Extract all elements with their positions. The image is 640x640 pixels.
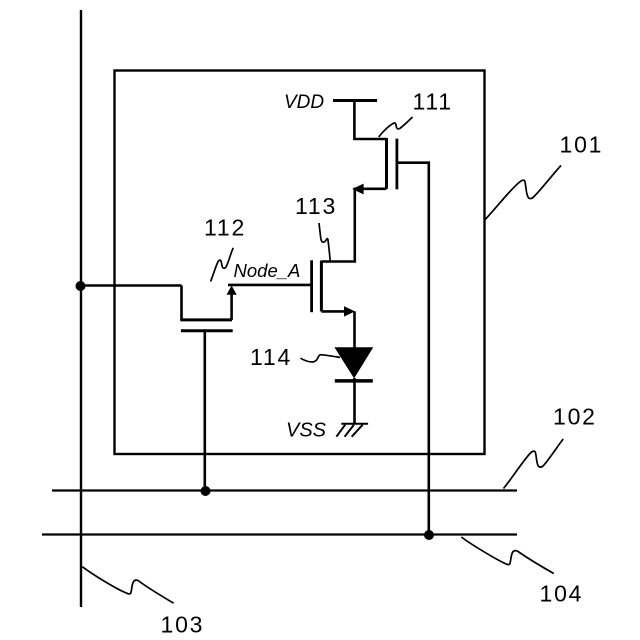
wire 112 source stem bbox=[230, 292, 233, 320]
leader line for 112 bbox=[211, 248, 234, 282]
source arrow of transistor 111 bbox=[352, 184, 363, 195]
leader line for 101 bbox=[485, 166, 561, 221]
svg-text:Node_A: Node_A bbox=[234, 260, 301, 281]
wire 112 gate to row 102 bbox=[204, 331, 207, 491]
row line 102 bbox=[52, 489, 517, 491]
transistor 113 bbox=[312, 260, 347, 312]
leader line for 103 bbox=[82, 567, 173, 604]
junction dot on row 102 bbox=[201, 486, 211, 496]
wire source of 111 down to transistor 113 bbox=[321, 189, 386, 262]
pixel circuit box 101 bbox=[115, 71, 485, 455]
ground symbol VSS bbox=[336, 424, 368, 437]
svg-text:101: 101 bbox=[560, 131, 604, 157]
leader line for 113 bbox=[319, 223, 330, 261]
leader line for 114 bbox=[301, 355, 341, 362]
wire VDD to transistor 111 drain bbox=[354, 101, 386, 140]
leader line for 104 bbox=[461, 537, 554, 574]
wire gate of 111 to column 104 bbox=[397, 163, 429, 535]
leader line for 111 bbox=[379, 117, 413, 137]
svg-text:VSS: VSS bbox=[286, 419, 327, 441]
wire column 103 to 112 drain bbox=[81, 284, 182, 287]
node A up arrow on 112 source stem bbox=[227, 286, 237, 295]
svg-text:113: 113 bbox=[295, 193, 337, 219]
junction dot on column 103 bbox=[76, 281, 86, 291]
transistor 112 bbox=[180, 286, 232, 331]
svg-text:VDD: VDD bbox=[284, 92, 324, 113]
leader line for 102 bbox=[504, 439, 564, 489]
wire node A to gate of 113 bbox=[228, 284, 312, 287]
svg-text:103: 103 bbox=[161, 612, 205, 638]
light emitting diode 114 bbox=[334, 347, 373, 381]
svg-text:102: 102 bbox=[553, 404, 597, 430]
svg-text:111: 111 bbox=[413, 89, 453, 115]
junction dot on row 104 bbox=[424, 530, 434, 540]
svg-text:114: 114 bbox=[250, 344, 292, 370]
wire 113 source to diode 114 bbox=[353, 311, 356, 348]
svg-text:104: 104 bbox=[540, 581, 584, 607]
wire diode cathode to ground bbox=[353, 378, 356, 424]
VDD supply bar bbox=[333, 99, 377, 102]
svg-text:112: 112 bbox=[204, 215, 246, 241]
column signal line 103 bbox=[80, 10, 82, 607]
source arrow of transistor 113 bbox=[344, 306, 355, 316]
transistor 111 bbox=[387, 138, 397, 189]
row line 104 bbox=[42, 533, 517, 535]
